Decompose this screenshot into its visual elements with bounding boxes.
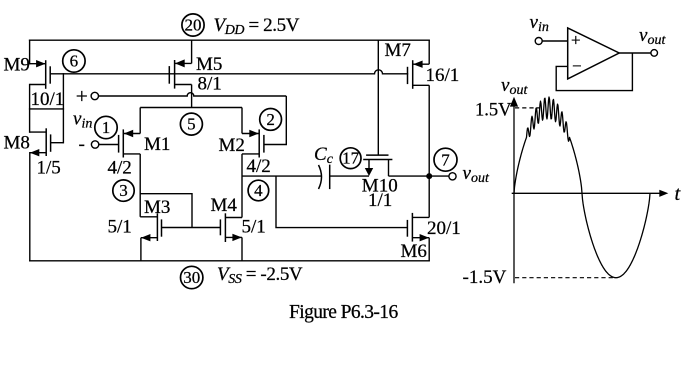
svg-text:VSS = -2.5V: VSS = -2.5V	[217, 264, 303, 287]
svg-text:vout: vout	[639, 25, 666, 48]
wire node 3 to mirror gates	[140, 194, 192, 228]
wire node5 to M1 source	[139, 108, 141, 134]
transistor M1	[119, 129, 141, 157]
transistor M4	[220, 213, 242, 242]
svg-text:1/5: 1/5	[37, 158, 61, 179]
svg-text:5: 5	[187, 115, 196, 134]
op-amp input terminal	[535, 38, 542, 45]
svg-text:VDD = 2.5V: VDD = 2.5V	[214, 15, 300, 38]
plot dashed -1.5V level	[515, 277, 614, 279]
svg-text:t: t	[675, 183, 682, 205]
svg-text:vin: vin	[530, 12, 549, 35]
wire input to op-amp	[542, 40, 568, 42]
transistor M2	[242, 129, 264, 157]
wire down to M6 gate	[276, 176, 407, 228]
wire M4 source to VSS	[241, 237, 243, 260]
plot t-axis	[512, 192, 663, 194]
svg-text:M4: M4	[211, 195, 238, 216]
node 4	[248, 180, 269, 201]
node vout terminal	[449, 173, 456, 180]
node 30	[181, 266, 203, 288]
wire M10 drain to output node	[389, 175, 449, 177]
op-amp output terminal	[651, 50, 658, 57]
wire M5 drain to node 5	[191, 85, 193, 108]
M2 source arrow	[249, 130, 258, 137]
node 5	[180, 113, 202, 135]
wire VDD to M5 source	[191, 40, 193, 63]
svg-text:1: 1	[102, 118, 111, 137]
svg-text:4/2: 4/2	[108, 158, 132, 179]
wire Cc to M10	[330, 175, 369, 177]
svg-text:1/1: 1/1	[368, 190, 392, 211]
svg-text:8/1: 8/1	[198, 74, 222, 95]
M9 source arrow	[36, 60, 45, 67]
svg-text:vout: vout	[463, 163, 490, 186]
wire node 4 branch right	[242, 175, 321, 177]
plot y-axis	[513, 102, 515, 283]
wire left rail to M9 source	[29, 40, 31, 64]
M7 source arrow	[413, 61, 423, 68]
node 2	[260, 109, 282, 131]
plot dashed 1.5V level	[515, 107, 540, 109]
svg-text:4/2: 4/2	[247, 156, 271, 177]
svg-text:10/1: 10/1	[31, 89, 65, 110]
wire M1 drain down to M3	[139, 154, 141, 217]
wire VDD right corner to M7 source	[428, 40, 430, 64]
wire node5 to M2 source	[241, 108, 243, 134]
svg-text:M2: M2	[219, 135, 245, 156]
wire right rail M7 drain to M6 drain	[428, 85, 430, 217]
transistor M10	[363, 40, 392, 176]
svg-text:5/1: 5/1	[108, 217, 132, 238]
M4 source arrow	[232, 234, 241, 241]
node 1	[95, 116, 117, 138]
svg-text:+: +	[76, 84, 88, 108]
wire M3 M4 gate line	[162, 227, 221, 229]
svg-text:30: 30	[183, 268, 200, 287]
svg-text:20/1: 20/1	[427, 218, 461, 239]
svg-text:M9: M9	[4, 55, 30, 76]
svg-text:1.5V: 1.5V	[475, 100, 512, 120]
svg-text:16/1: 16/1	[426, 65, 460, 86]
node 7	[434, 148, 457, 171]
M3 source arrow	[141, 234, 150, 241]
wire VSS bottom rail	[30, 260, 429, 262]
svg-text:4: 4	[254, 181, 263, 200]
op-amp U1 triangle	[568, 28, 620, 79]
svg-text:-1.5V: -1.5V	[463, 267, 507, 288]
svg-text:M6: M6	[401, 241, 427, 262]
node 17	[340, 148, 361, 169]
transistor M7	[408, 60, 430, 89]
node 3	[113, 180, 134, 201]
node 6	[63, 50, 85, 72]
svg-text:M1: M1	[144, 134, 170, 155]
plot sine waveform with ringing	[514, 97, 650, 278]
wire VDD top rail	[30, 39, 430, 41]
M5 source arrow	[175, 59, 185, 67]
svg-text:3: 3	[119, 181, 128, 200]
svg-text:M3: M3	[144, 197, 170, 218]
svg-text:M7: M7	[385, 40, 411, 61]
wire node 6 bias line with hop	[50, 70, 407, 74]
svg-text:2: 2	[266, 110, 275, 129]
svg-text:M5: M5	[196, 54, 222, 75]
M10 source arrow	[365, 168, 373, 176]
wire minus to M1 gate	[99, 144, 119, 146]
wire node 5 horizontal	[140, 107, 242, 109]
wire plus down to M2 gate	[264, 96, 286, 145]
wire node6 right vertical	[62, 74, 64, 143]
svg-text:vin: vin	[73, 109, 92, 132]
minus input terminal	[91, 141, 98, 148]
svg-text:20: 20	[185, 16, 202, 35]
svg-text:Cc: Cc	[314, 144, 334, 167]
svg-text:+: +	[571, 31, 581, 50]
M8 source arrow	[30, 149, 39, 156]
transistor M8	[30, 128, 64, 156]
svg-text:M8: M8	[4, 133, 30, 154]
wire M9 drain to box	[29, 85, 31, 133]
wire M3 source to VSS	[140, 238, 142, 261]
svg-text:7: 7	[441, 150, 450, 169]
node 20	[182, 14, 204, 36]
wire node6 box horizontal	[30, 108, 64, 110]
transistor M9	[30, 60, 51, 89]
svg-text:Figure P6.3-16: Figure P6.3-16	[289, 302, 398, 323]
M1 source arrow	[124, 130, 134, 137]
svg-text:−: −	[572, 57, 582, 76]
wire M2 drain down to M4	[241, 154, 243, 218]
wire M8 source to VSS	[29, 153, 31, 261]
plus input terminal	[91, 92, 98, 99]
node output junction dot	[426, 173, 432, 179]
M6 source arrow	[420, 234, 429, 241]
svg-text:6: 6	[70, 52, 79, 71]
svg-text:17: 17	[342, 149, 360, 168]
capacitor Cc	[319, 165, 330, 190]
wire M6 source to VSS	[428, 238, 430, 261]
svg-text:-: -	[79, 134, 85, 155]
transistor M5	[169, 60, 191, 89]
wire op-amp output	[619, 52, 651, 54]
svg-text:vout: vout	[501, 75, 528, 98]
transistor M6	[407, 213, 429, 242]
svg-text:5/1: 5/1	[242, 217, 266, 238]
transistor M3	[140, 213, 161, 241]
wire plus input with hop	[99, 93, 287, 96]
wire feedback loop	[556, 53, 632, 91]
